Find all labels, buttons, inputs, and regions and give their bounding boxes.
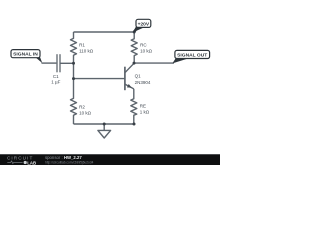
junction node B (base/R2) [72, 77, 75, 80]
svg-text:Q1: Q1 [135, 74, 142, 79]
svg-text:110 kΩ: 110 kΩ [79, 48, 94, 53]
svg-text:10 kΩ: 10 kΩ [79, 110, 92, 115]
svg-text:2N3904: 2N3904 [135, 80, 151, 85]
wire bottom rail (R2 bottom to RE bottom) [74, 123, 135, 125]
svg-text:sponsor : HW_2.27: sponsor : HW_2.27 [45, 155, 82, 160]
junction RE bottom [133, 123, 136, 126]
svg-text:http://circuitlab.com/c6tnf5j6: http://circuitlab.com/c6tnf5j6u2o34 [45, 161, 94, 165]
svg-text:RC: RC [140, 43, 147, 48]
svg-text:+20V: +20V [138, 21, 150, 27]
flag SIGNAL IN [11, 50, 42, 64]
transistor Q1 emitter arrow [127, 84, 132, 88]
wire base (node B to Q1 base) [74, 78, 125, 80]
svg-text:LAB: LAB [27, 160, 36, 165]
resistor RC [131, 32, 137, 63]
wire collector node to SIGNAL OUT [134, 62, 174, 64]
capacitor C1 [57, 54, 60, 72]
svg-text:1 kΩ: 1 kΩ [140, 110, 150, 115]
wire top rail (+20V rail from R1 top to RC top) [74, 31, 135, 33]
footer bar [0, 154, 220, 166]
junction +20V at RC top [133, 31, 136, 34]
junction collector node [133, 62, 136, 65]
wire signal-in to C1 [42, 62, 57, 64]
svg-text:R1: R1 [79, 43, 85, 48]
junction node A (R1/C1) [72, 62, 75, 65]
wire C1 to node A [60, 62, 73, 64]
svg-text:10 kΩ: 10 kΩ [140, 48, 153, 53]
ground [98, 124, 111, 138]
flag +20V supply [133, 19, 151, 32]
flag SIGNAL OUT [172, 50, 209, 63]
resistor R1 [71, 32, 77, 63]
resistor RE [131, 89, 137, 124]
svg-text:SIGNAL OUT: SIGNAL OUT [177, 52, 207, 58]
CircuitLab logo [7, 155, 36, 165]
transistor Q1 [125, 63, 134, 90]
junction ground node [103, 123, 106, 126]
svg-text:SIGNAL IN: SIGNAL IN [13, 52, 38, 58]
resistor R2 [71, 79, 77, 124]
svg-text:1 µF: 1 µF [51, 79, 60, 84]
svg-text:R2: R2 [79, 105, 85, 110]
wire node A down to node B [73, 63, 75, 78]
svg-text:RE: RE [140, 103, 146, 108]
